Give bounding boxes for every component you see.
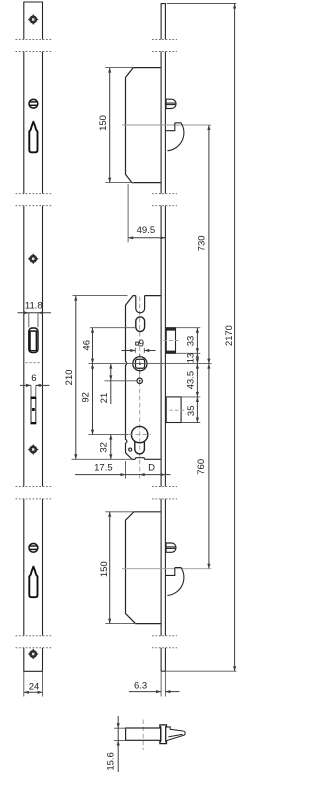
dimension 150 (bottom housing) [99, 512, 136, 624]
svg-text:150: 150 [99, 561, 110, 577]
svg-text:46: 46 [82, 340, 93, 351]
dimension 150 (top housing) [98, 68, 134, 183]
small fixing hole below follower [137, 378, 142, 383]
svg-text:2170: 2170 [224, 325, 234, 346]
extension lines right side [176, 328, 200, 423]
countersunk screw hole (mid upper) [28, 253, 39, 264]
hook tip (section view) [167, 727, 186, 741]
svg-text:13: 13 [186, 353, 197, 364]
bottom hook gearbox housing (side view) [126, 512, 162, 624]
break lines on faceplate strip [16, 40, 53, 648]
lock case (bottom section view) [126, 728, 161, 740]
dimension 15.6 (case thickness) [106, 716, 126, 772]
svg-text:730: 730 [197, 235, 208, 251]
strip centre mark [26, 362, 41, 364]
oblong hole above follower [136, 317, 145, 332]
svg-text:21: 21 [99, 393, 110, 404]
faceplate profile (section view) [160, 725, 167, 744]
section centreline [142, 720, 144, 751]
svg-text:49.5: 49.5 [137, 225, 156, 236]
svg-text:32: 32 [99, 442, 110, 453]
svg-text:17.5: 17.5 [94, 463, 113, 474]
cylinder horizontal centreline [129, 434, 151, 436]
dimensions 21 and 32 [99, 364, 113, 460]
dimensions 730 and 760 [196, 125, 211, 569]
svg-text:35: 35 [186, 406, 197, 417]
rod slot in faceplate [31, 397, 36, 424]
extension line case bottom [72, 458, 133, 460]
faceplate side view (right rail) [161, 4, 167, 697]
top hook slot in faceplate [29, 122, 37, 153]
dimension 2170 (overall length) [166, 4, 236, 672]
countersunk screw hole top [28, 14, 39, 25]
svg-text:11.8: 11.8 [25, 301, 43, 312]
bottom fixing screw (side view) [166, 543, 176, 552]
dimensions 33, 13, 43.5, 35 [185, 328, 199, 423]
follower axis line [89, 363, 212, 365]
countersunk screw hole bottom [28, 649, 39, 660]
latch bolt (side view) [164, 328, 179, 354]
latch slot in faceplate (front) [29, 328, 38, 353]
top hook gearbox housing (side view) [126, 68, 162, 183]
svg-text:9: 9 [139, 338, 144, 349]
svg-text:6: 6 [31, 373, 36, 384]
dimensions 17.5 and D (backset) [75, 461, 171, 479]
svg-text:D: D [148, 463, 155, 474]
dimension square 9 follower [122, 338, 156, 352]
svg-text:6.3: 6.3 [134, 680, 147, 691]
extension line small hole axis [105, 380, 137, 382]
svg-text:43.5: 43.5 [185, 371, 196, 390]
slotted screw (lower) [29, 543, 38, 552]
case vertical centreline [139, 297, 141, 479]
svg-text:150: 150 [98, 115, 109, 131]
top fixing screw (side view) [166, 99, 176, 108]
bottom hook slot in faceplate [29, 567, 37, 598]
euro profile cylinder hole [131, 426, 147, 453]
dimension 210 (case height) [64, 296, 78, 460]
svg-text:15.6: 15.6 [106, 752, 117, 771]
dimension 49.5 (housing depth) [128, 184, 165, 242]
dimension 11.8 (latch slot width) [18, 301, 52, 328]
dimension 6.3 (faceplate thickness) [129, 680, 180, 693]
slotted screw (upper) [29, 99, 38, 108]
cylinder axis extension [89, 434, 129, 436]
countersunk screw hole (mid lower) [28, 444, 39, 455]
dimension 6 (rod slot width) [20, 373, 50, 397]
break lines on rail [152, 40, 177, 648]
svg-text:760: 760 [196, 459, 207, 475]
extension line case top [73, 295, 128, 297]
bottom hook bolt (side view) [166, 568, 184, 596]
svg-text:33: 33 [186, 336, 197, 347]
handle follower (square 8 hub) [133, 354, 147, 374]
top slot notch in case [136, 296, 145, 313]
dimensions 46 and 92 [81, 328, 95, 435]
top hook bolt (side view) [166, 123, 184, 151]
svg-text:92: 92 [81, 392, 92, 403]
dimension 24 (faceplate width) [24, 672, 43, 697]
top hook centreline [122, 124, 211, 126]
extension line latch top level [90, 327, 136, 329]
faceplate front view (left strip) outline [23, 2, 43, 671]
svg-text:210: 210 [64, 369, 75, 385]
svg-text:24: 24 [29, 681, 40, 692]
deadbolt (side view) [166, 397, 184, 423]
lock case outline (front view) [126, 296, 162, 460]
bottom hook centreline [122, 568, 211, 570]
small hole left of cylinder [129, 448, 132, 451]
